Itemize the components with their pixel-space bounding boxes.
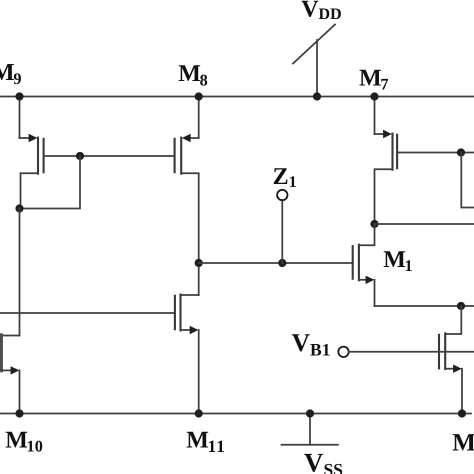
wire M7 gate to right edge (397, 152, 474, 154)
node top rail M7 dot (370, 92, 378, 100)
wire bottom VSS rail (0, 413, 471, 415)
svg-text:VDD: VDD (301, 0, 341, 23)
transistor M9 (20, 97, 44, 209)
svg-text:VSS: VSS (304, 447, 343, 474)
svg-text:Z1: Z1 (273, 164, 297, 191)
wire node A down to M9 drain (20, 156, 81, 209)
wire M1 source to right edge (375, 305, 474, 307)
svg-text:M10: M10 (5, 427, 43, 455)
ground VSS symbol (282, 414, 339, 445)
svg-text:M2: M2 (452, 429, 474, 458)
svg-text:M1: M1 (383, 247, 412, 275)
node M7 drain dot (370, 220, 378, 228)
svg-text:M7: M7 (359, 66, 388, 94)
node top rail VDD dot (313, 92, 321, 100)
wire M9 drain to M10 drain (19, 209, 21, 336)
wire M7 drain to right edge (375, 223, 474, 225)
wire node A to M8 gate (80, 155, 175, 157)
transistor M11 (175, 295, 199, 414)
node M9 drain dot (15, 204, 23, 212)
wire M9 gate to node A (44, 155, 80, 157)
svg-text:M9: M9 (0, 59, 21, 88)
wire Z1 terminal lead (281, 200, 283, 263)
node M1 source dot (457, 302, 465, 310)
terminal VB1 circle (338, 347, 348, 357)
wire top VDD rail (0, 96, 474, 98)
node bottom rail M11 dot (195, 409, 203, 417)
wire node to M1 gate (199, 262, 353, 264)
node bottom rail MB dot (458, 409, 466, 417)
node top rail M9 dot (15, 92, 23, 100)
transistor M8 (175, 97, 199, 264)
transistor M7 (375, 97, 398, 225)
svg-text:M8: M8 (178, 61, 207, 89)
svg-text:M11: M11 (186, 427, 226, 456)
svg-text:VB1: VB1 (292, 328, 331, 359)
node M7 gate dot (457, 148, 465, 156)
transistor M1 (353, 224, 375, 306)
wire M7 gate node down to right edge stub (461, 153, 474, 208)
transistor M10 (1, 335, 19, 414)
wire M8 drain to M11 drain (198, 263, 200, 295)
wire VB1 to MB gate and beyond to right edge (349, 351, 474, 353)
transistor MB right bottom (439, 306, 462, 414)
terminal Z1 circle (277, 190, 287, 200)
power VDD symbol (293, 25, 335, 97)
node A gate dot (76, 152, 84, 160)
node top rail M8 dot (195, 92, 203, 100)
node bottom rail VSS dot (306, 409, 314, 417)
node bottom rail M10 dot (15, 409, 23, 417)
node Z1 tap dot (278, 259, 286, 267)
wire M11/M10 gate line (0, 312, 175, 314)
node Z1 branch dot (195, 259, 203, 267)
